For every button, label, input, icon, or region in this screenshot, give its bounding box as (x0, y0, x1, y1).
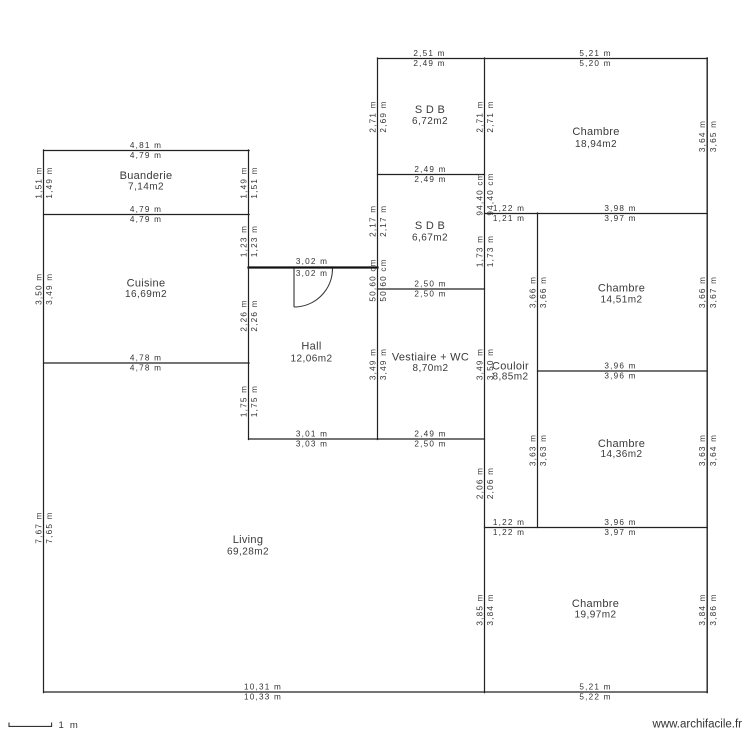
room label: Chambre 19,97 (572, 598, 619, 621)
svg-text:Vestiaire + WC: Vestiaire + WC (392, 352, 469, 364)
dimension label: Vestiaire top (2,50 m / 2,50 m) (414, 280, 446, 299)
room label: Living (227, 534, 269, 558)
svg-text:14,51m2: 14,51m2 (600, 295, 642, 306)
svg-text:2,51 m: 2,51 m (413, 49, 445, 58)
svg-text:4,79 m: 4,79 m (130, 205, 162, 214)
wall: SDB 6,72 / SDB 6,67 divider wall (378, 174, 485, 176)
svg-text:7,67 m: 7,67 m (34, 511, 43, 543)
svg-text:2,17 m: 2,17 m (368, 205, 377, 237)
dimension label: Hall-Vestiaire jamb (50,60 cm / 50,60 cm) (368, 258, 388, 301)
room label: Buanderie (120, 170, 173, 193)
svg-text:7,65 m: 7,65 m (45, 511, 54, 543)
svg-text:4,79 m: 4,79 m (130, 215, 162, 224)
dimension label: Chambre 14,36 left (3,63 m / 3,63 m) (528, 434, 548, 466)
svg-text:2,49 m: 2,49 m (414, 165, 446, 174)
svg-text:Chambre: Chambre (598, 283, 645, 295)
svg-text:5,20 m: 5,20 m (579, 59, 611, 68)
room label: SDB 6,67 (412, 220, 448, 244)
svg-text:Cuisine: Cuisine (127, 278, 166, 290)
dimension label: Chambre 14,51 right (3,66 m / 3,67 m) (698, 276, 718, 308)
svg-text:3,49 m: 3,49 m (379, 348, 388, 380)
svg-text:3,50 m: 3,50 m (34, 273, 43, 305)
svg-text:2,50 m: 2,50 m (414, 290, 446, 299)
dimension label: Vestiaire left (3,49 m / 3,49 m) (368, 348, 388, 380)
wall: Couloir / Chambre east wall (537, 213, 539, 528)
svg-text:16,69m2: 16,69m2 (125, 289, 167, 300)
dimension label: Living left (7,67 m / 7,65 m) (34, 511, 54, 543)
room label: SDB 6,72 (412, 104, 448, 127)
wall: left outer wall (43, 150, 45, 693)
svg-text:2,49 m: 2,49 m (414, 175, 446, 184)
wall: Hall north wall with door opening (249, 266, 378, 268)
dimension label: SDB divider (2,49 m / 2,49 m) (414, 165, 446, 184)
wall: Hall + Vestiaire south wall (249, 438, 485, 440)
dimension label: Couloir left lower (2,06 m / 2,06 m) (475, 467, 495, 499)
svg-text:1,51 m: 1,51 m (34, 166, 43, 198)
svg-text:3,67 m: 3,67 m (709, 276, 718, 308)
svg-text:1,22 m: 1,22 m (493, 518, 525, 527)
svg-text:12,06m2: 12,06m2 (290, 354, 332, 365)
wall: bottom outer wall (44, 691, 708, 693)
svg-text:1,75 m: 1,75 m (250, 385, 259, 417)
room label: Chambre 14,36 (598, 438, 645, 460)
dimension label: Vestiaire bottom (2,49 m / 2,50 m) (414, 430, 446, 449)
wall: SDB-Vestiaire / Chambre-Couloir divider wall (484, 58, 486, 693)
svg-text:19,97m2: 19,97m2 (574, 610, 616, 621)
svg-text:1,23 m: 1,23 m (239, 225, 248, 257)
svg-text:3,63 m: 3,63 m (698, 434, 707, 466)
dimension label: Hall left lower (1,75 m / 1,75 m) (239, 385, 259, 417)
dimension label: Living bottom (10,31 m / 10,33 m) (244, 683, 282, 702)
svg-text:5,22 m: 5,22 m (579, 693, 611, 702)
svg-text:1,21 m: 1,21 m (493, 214, 525, 223)
svg-text:Living: Living (233, 534, 264, 546)
svg-text:3,96 m: 3,96 m (604, 518, 636, 527)
svg-text:10,33 m: 10,33 m (244, 693, 282, 702)
svg-text:2,50 m: 2,50 m (414, 280, 446, 289)
dimension label: SDB top (2,51 m / 2,49 m) (413, 49, 445, 68)
svg-text:3,96 m: 3,96 m (604, 362, 636, 371)
svg-text:3,96 m: 3,96 m (604, 372, 636, 381)
dimension label: Hall top (3,02 m / 3,02 m) (296, 257, 328, 278)
wall: Chambre 18,94 south wall (Couloir + Chambre 14,51 top) (485, 213, 708, 215)
svg-text:2,06 m: 2,06 m (486, 467, 495, 499)
dimension label: Couloir left upper (1,73 m / 1,73 m) (475, 235, 495, 267)
wall: SDB 6,67 / Vestiaire divider wall (378, 288, 485, 290)
svg-text:3,98 m: 3,98 m (604, 204, 636, 213)
dimension label: Vestiaire right (3,49 m / 3,50 m) (475, 348, 495, 380)
svg-text:3,85 m: 3,85 m (475, 593, 484, 625)
svg-text:69,28m2: 69,28m2 (227, 547, 269, 558)
svg-text:3,97 m: 3,97 m (604, 214, 636, 223)
svg-text:8,70m2: 8,70m2 (412, 363, 448, 374)
dimension label: Chambre 19,97 right (3,84 m / 3,86 m) (698, 593, 718, 625)
svg-text:2,49 m: 2,49 m (414, 430, 446, 439)
wall: Hall / SDB-Vestiaire divider wall (377, 58, 379, 440)
dimension label: SDB 6,67 left (2,17 m / 2,17 m) (368, 205, 388, 237)
dimension label: Buanderie bottom (4,79 m / 4,79 m) (130, 205, 162, 224)
svg-text:4,79 m: 4,79 m (130, 151, 162, 160)
svg-text:3,63 m: 3,63 m (528, 434, 537, 466)
dimension label: Chambre 14,36 right (3,63 m / 3,64 m) (698, 434, 718, 466)
dimension label: Chambre 19,97 top left (1,22 m / 1,22 m) (493, 518, 525, 537)
dimension label: Couloir top (1,22 m / 1,21 m) (493, 204, 525, 223)
svg-text:3,02 m: 3,02 m (296, 257, 328, 266)
dimension label: Hall left (2,26 m / 2,26 m) (239, 299, 259, 331)
wall: Buanderie top wall (44, 150, 250, 152)
svg-text:1 m: 1 m (59, 720, 80, 731)
dimension label: Chambre 19,97 top right (3,96 m / 3,97 m) (604, 518, 636, 537)
dimension label: SDB 6,72 left (2,71 m / 2,69 m) (368, 100, 388, 132)
room label: Hall (290, 341, 332, 365)
svg-text:3,03 m: 3,03 m (296, 440, 328, 449)
svg-text:4,78 m: 4,78 m (130, 354, 162, 363)
svg-text:3,64 m: 3,64 m (698, 120, 707, 152)
svg-text:5,21 m: 5,21 m (579, 49, 611, 58)
svg-text:1,22 m: 1,22 m (493, 528, 525, 537)
svg-text:3,02 m: 3,02 m (296, 269, 328, 278)
svg-text:www.archifacile.fr: www.archifacile.fr (652, 719, 743, 731)
wall: top wall (SDB + Chambre 18,94) (378, 58, 708, 60)
svg-text:3,97 m: 3,97 m (604, 528, 636, 537)
door: Hall entrance door leaf and swing arc (294, 269, 333, 308)
scale bar: 1 m (9, 720, 79, 731)
svg-text:2,71 m: 2,71 m (368, 100, 377, 132)
svg-text:2,71 m: 2,71 m (475, 100, 484, 132)
room label: Couloir (492, 361, 529, 383)
svg-text:2,06 m: 2,06 m (475, 467, 484, 499)
dimension label: Buanderie top (4,81 m / 4,79 m) (130, 141, 162, 160)
dimension label: Cuisine right upper (1,23 m / 1,23 m) (239, 225, 259, 257)
dimension label: Cuisine left (3,50 m / 3,49 m) (34, 273, 54, 305)
room label: Cuisine (125, 278, 167, 301)
dimension label: Hall bottom (3,01 m / 3,03 m) (296, 430, 328, 449)
svg-text:18,94m2: 18,94m2 (575, 139, 617, 150)
svg-text:3,49 m: 3,49 m (368, 348, 377, 380)
svg-text:8,85m2: 8,85m2 (492, 372, 528, 383)
svg-text:3,01 m: 3,01 m (296, 430, 328, 439)
svg-text:14,36m2: 14,36m2 (600, 449, 642, 460)
svg-text:94,40 cm: 94,40 cm (486, 172, 495, 215)
svg-text:3,63 m: 3,63 m (539, 434, 548, 466)
svg-text:50,60 cm: 50,60 cm (368, 258, 377, 301)
svg-text:S D B: S D B (415, 220, 445, 232)
wall: Cuisine / Living divider wall (44, 362, 250, 364)
svg-text:6,72m2: 6,72m2 (412, 116, 448, 127)
wall: Chambre 14,36 / Chambre 19,97 divider wall (485, 527, 708, 529)
svg-text:3,86 m: 3,86 m (709, 593, 718, 625)
svg-text:2,50 m: 2,50 m (414, 440, 446, 449)
svg-text:7,14m2: 7,14m2 (128, 182, 164, 193)
room label: Chambre 14,51 (598, 283, 645, 306)
svg-text:1,73 m: 1,73 m (486, 235, 495, 267)
svg-text:2,26 m: 2,26 m (250, 299, 259, 331)
wall: Buanderie / Cuisine divider wall (44, 214, 250, 216)
dimension label: Chambre 18,94 top (5,21 m / 5,20 m) (579, 49, 611, 68)
svg-text:1,49 m: 1,49 m (239, 166, 248, 198)
svg-text:3,66 m: 3,66 m (539, 276, 548, 308)
wall: Buanderie-Cuisine-Hall east/west wall (248, 150, 250, 440)
svg-text:3,49 m: 3,49 m (45, 273, 54, 305)
dimension label: Buanderie left (1,51 m / 1,49 m) (34, 166, 54, 198)
dimension label: Chambre 14,51 top (3,98 m / 3,97 m) (604, 204, 636, 223)
svg-text:10,31 m: 10,31 m (244, 683, 282, 692)
svg-text:4,81 m: 4,81 m (130, 141, 162, 150)
svg-text:1,75 m: 1,75 m (239, 385, 248, 417)
svg-text:1,23 m: 1,23 m (250, 225, 259, 257)
wall: right outer wall (706, 58, 708, 693)
svg-text:2,26 m: 2,26 m (239, 299, 248, 331)
svg-text:5,21 m: 5,21 m (579, 683, 611, 692)
svg-text:3,66 m: 3,66 m (698, 276, 707, 308)
dimension label: SDB-Couloir jamb (94,40 cm / 94,40 cm) (475, 172, 495, 215)
svg-text:50,60 cm: 50,60 cm (379, 258, 388, 301)
svg-text:3,84 m: 3,84 m (486, 593, 495, 625)
room label: Vestiaire + WC (392, 352, 469, 375)
svg-text:1,49 m: 1,49 m (45, 166, 54, 198)
svg-text:3,66 m: 3,66 m (528, 276, 537, 308)
room label: Chambre 18,94 (572, 126, 619, 150)
svg-text:6,67m2: 6,67m2 (412, 233, 448, 244)
svg-text:2,17 m: 2,17 m (379, 205, 388, 237)
svg-text:S D B: S D B (415, 104, 445, 116)
svg-text:94,40 cm: 94,40 cm (475, 172, 484, 215)
dimension label: Chambre 18,94 right (3,64 m / 3,65 m) (698, 120, 718, 152)
svg-text:3,84 m: 3,84 m (698, 593, 707, 625)
svg-text:Hall: Hall (301, 341, 321, 353)
svg-text:3,49 m: 3,49 m (475, 348, 484, 380)
dimension label: Chambre 19,97 bottom (5,21 m / 5,22 m) (579, 683, 611, 702)
dimension label: Chambre 19,97 left (3,85 m / 3,84 m) (475, 593, 495, 625)
svg-text:2,49 m: 2,49 m (413, 59, 445, 68)
wall: Chambre 14,51 / Chambre 14,36 divider wall (538, 370, 708, 372)
svg-text:2,71 m: 2,71 m (486, 100, 495, 132)
dimension label: Buanderie right (1,49 m / 1,51 m) (239, 166, 259, 198)
dimension label: Cuisine bottom (4,78 m / 4,78 m) (130, 354, 162, 373)
svg-text:1,22 m: 1,22 m (493, 204, 525, 213)
svg-text:1,73 m: 1,73 m (475, 235, 484, 267)
svg-text:1,51 m: 1,51 m (250, 166, 259, 198)
svg-text:3,65 m: 3,65 m (709, 120, 718, 152)
svg-text:3,64 m: 3,64 m (709, 434, 718, 466)
svg-text:2,69 m: 2,69 m (379, 100, 388, 132)
dimension label: SDB 6,72 right (2,71 m / 2,71 m) (475, 100, 495, 132)
svg-text:4,78 m: 4,78 m (130, 364, 162, 373)
svg-text:Chambre: Chambre (572, 126, 619, 138)
svg-text:Buanderie: Buanderie (120, 170, 173, 182)
dimension label: Chambre 14,51 left (3,66 m / 3,66 m) (528, 276, 548, 308)
svg-text:Chambre: Chambre (572, 598, 619, 610)
dimension label: Chambre 14,36 top (3,96 m / 3,96 m) (604, 362, 636, 381)
